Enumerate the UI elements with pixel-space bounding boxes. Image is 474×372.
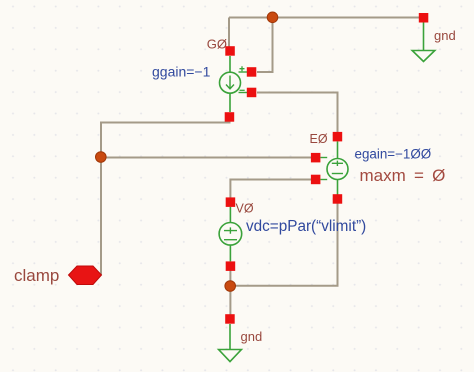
svg-text:VØ: VØ	[236, 202, 254, 216]
pin square G0 minus control	[247, 88, 256, 98]
label egain=-100	[355, 147, 432, 162]
label clamp	[14, 266, 59, 285]
label V0	[236, 202, 254, 216]
wire from junction to G0 plus control	[257, 18, 273, 73]
vccs G0 symbol	[220, 56, 248, 112]
wire E0 minus control to V0 top	[230, 180, 311, 199]
wire V0 bottom to ground	[229, 271, 231, 315]
svg-text:vdc=pPar(“vlimit”): vdc=pPar(“vlimit”)	[246, 218, 366, 235]
svg-text:EØ: EØ	[310, 132, 328, 146]
svg-text:clamp: clamp	[14, 266, 59, 285]
pin square V0 bottom	[226, 261, 236, 271]
pin square G0 bottom	[225, 112, 235, 122]
svg-text:egain=−1ØØ: egain=−1ØØ	[355, 147, 432, 162]
wire left column to E0 plus control	[101, 157, 311, 159]
pin square G0 plus control	[247, 67, 256, 77]
label E0	[310, 132, 328, 146]
pin square E0 minus control	[311, 175, 321, 185]
label maxm = 0	[360, 166, 446, 185]
svg-text:GØ: GØ	[207, 37, 227, 52]
label ggain=-1	[152, 64, 211, 80]
label gnd top	[434, 28, 456, 43]
pin square gnd bottom	[225, 314, 235, 324]
pin square V0 top	[226, 197, 236, 207]
svg-text:gnd: gnd	[434, 28, 456, 43]
wire G0 top vertical	[228, 18, 230, 48]
ground top-right	[412, 23, 435, 62]
ground bottom	[219, 324, 242, 362]
node clamp pin hexagon	[69, 266, 102, 285]
svg-text:maxm = Ø: maxm = Ø	[360, 166, 446, 185]
pin square E0 plus control	[311, 153, 321, 163]
pin square gnd top	[419, 13, 429, 23]
pin square E0 top	[333, 132, 343, 142]
svg-text:ggain=−1: ggain=−1	[152, 64, 211, 80]
wire top net horizontal	[229, 17, 424, 19]
pin square G0 top	[225, 46, 235, 56]
voltage source V0 symbol	[219, 207, 242, 262]
node junction left	[96, 152, 107, 163]
node junction top	[267, 12, 278, 23]
vcvs E0 symbol	[321, 142, 349, 195]
wire G0 bottom to left column	[101, 117, 230, 275]
svg-text:gnd: gnd	[241, 329, 263, 344]
wire G0 minus to E0 top	[257, 93, 338, 133]
label G0	[207, 37, 227, 52]
wire bottom net to E0 bottom	[230, 203, 337, 286]
label gnd bottom	[241, 329, 263, 344]
label vdc=pPar("vlimit")	[246, 218, 366, 235]
pin square E0 bottom	[333, 194, 343, 204]
node junction bottom	[225, 281, 236, 292]
